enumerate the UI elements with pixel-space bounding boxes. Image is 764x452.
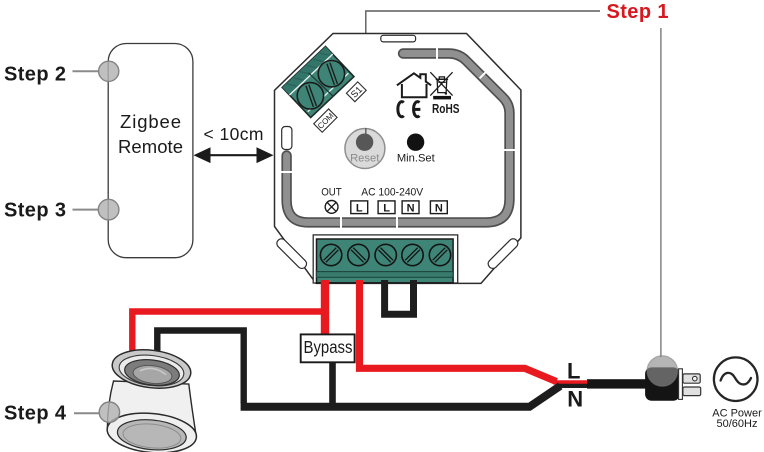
svg-text:RoHS: RoHS — [432, 102, 460, 116]
svg-text:Min.Set: Min.Set — [397, 152, 436, 164]
svg-text:N: N — [407, 202, 415, 214]
svg-text:Bypass: Bypass — [304, 337, 353, 357]
svg-text:L: L — [383, 202, 390, 214]
svg-text:50/60Hz: 50/60Hz — [717, 418, 758, 430]
svg-text:< 10cm: < 10cm — [204, 124, 264, 144]
svg-text:AC 100-240V: AC 100-240V — [361, 187, 423, 199]
svg-text:N: N — [567, 386, 583, 411]
svg-text:L: L — [567, 359, 580, 384]
svg-text:L: L — [356, 202, 363, 214]
svg-text:Reset: Reset — [350, 152, 380, 164]
svg-text:Step 4: Step 4 — [4, 402, 67, 424]
svg-text:Zigbee: Zigbee — [120, 111, 181, 132]
svg-text:Step 2: Step 2 — [4, 64, 66, 86]
svg-text:Step 1: Step 1 — [607, 1, 669, 23]
svg-text:Step 3: Step 3 — [4, 200, 66, 222]
svg-text:N: N — [435, 202, 443, 214]
svg-text:OUT: OUT — [321, 187, 342, 199]
svg-text:Remote: Remote — [118, 136, 183, 157]
